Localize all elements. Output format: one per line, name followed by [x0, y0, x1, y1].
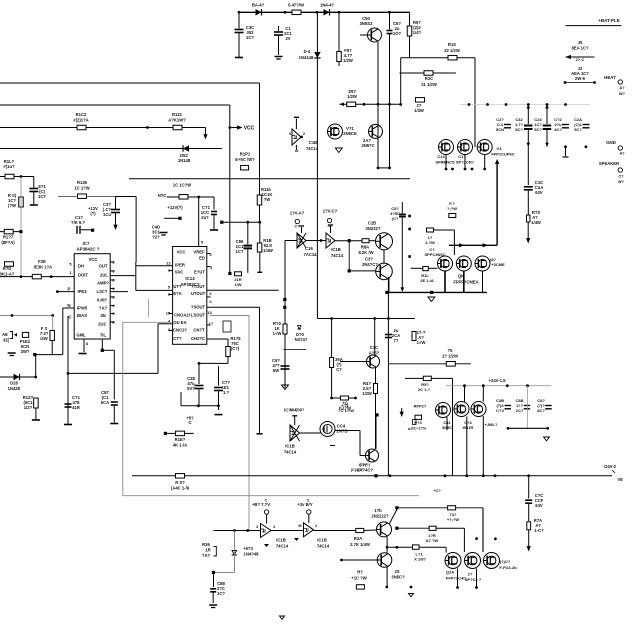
svg-text:0.47?/W: 0.47?/W	[288, 3, 304, 8]
svg-text:7AC14: 7AC14	[303, 252, 317, 257]
svg-text:VREF: VREF	[193, 250, 205, 255]
svg-text:?A?: ?A?	[202, 553, 211, 558]
svg-text:1R: 1R	[205, 548, 210, 553]
capacitor C52A	[574, 117, 590, 132]
svg-text:R11b: R11b	[261, 187, 271, 192]
resistor R73	[447, 506, 483, 552]
wire Q1B collector	[390, 506, 399, 523]
capacitor C8C	[537, 398, 551, 413]
svg-text:1C 1C?W: 1C 1C?W	[173, 183, 191, 188]
svg-text:7?: 7?	[394, 338, 399, 343]
resistor R107	[0, 229, 23, 245]
inverter IC16 74C14	[285, 226, 317, 257]
svg-text:A?K1W?: A?K1W?	[168, 118, 186, 123]
wire Q3B base	[348, 239, 376, 272]
svg-text:2u?: 2u?	[201, 215, 209, 220]
svg-text:12: 12	[166, 261, 171, 266]
svg-text:BA-4?: BA-4?	[252, 3, 265, 8]
capacitor C41b 478	[64, 395, 81, 425]
svg-text:R S?: R S?	[175, 480, 185, 485]
svg-text:A: A	[112, 320, 115, 325]
svg-text:AMP?: AMP?	[97, 281, 109, 286]
svg-text:2C 1-?: 2C 1-?	[418, 387, 431, 392]
resistor R20 1K	[273, 321, 287, 336]
resistor R1E7 4K	[164, 431, 194, 447]
capacitor C51	[387, 12, 402, 168]
svg-text:AP3842C ?: AP3842C ?	[77, 247, 100, 252]
transistor Q30	[367, 345, 380, 368]
svg-text:N?C: N?C	[158, 193, 167, 198]
svg-text:R36: R36	[202, 542, 210, 547]
svg-text:F2E: F2E	[38, 259, 46, 264]
diode D2 1N4148 on top rail	[320, 3, 334, 16]
svg-text:#(1u?: #(1u?	[3, 164, 15, 169]
svg-text:CT?: CT?	[173, 336, 182, 341]
capacitor C23 bulk	[534, 105, 551, 147]
svg-text:BIAS: BIAS	[77, 313, 87, 318]
wire IC14 LSOUT gray	[210, 316, 249, 531]
capacitor C88	[210, 572, 225, 603]
svg-text:1/W: 1/W	[234, 282, 241, 287]
svg-text:/4W: /4W	[40, 336, 47, 341]
resistor R1D	[0, 262, 15, 277]
svg-text:C2B: C2B	[368, 221, 376, 226]
transistor Q3B	[362, 257, 392, 280]
mosfet QR3	[471, 402, 498, 428]
resistor R1R	[426, 526, 465, 552]
svg-text:R2A: R2A	[354, 536, 362, 541]
svg-text:LSC?: LSC?	[97, 289, 108, 294]
wire Q2B emitter down	[383, 250, 385, 263]
wire gray box bottom edge	[123, 495, 419, 497]
svg-text:N4?4?: N4?4?	[295, 337, 308, 342]
resistor F on right	[412, 330, 426, 345]
svg-text:2N6CE: 2N6CE	[343, 131, 357, 136]
wire gate1 input vertical	[283, 241, 286, 389]
text IC2A label	[284, 408, 302, 413]
svg-text:C: C	[188, 420, 191, 425]
IC14 right pin numbers	[207, 252, 214, 326]
IC14 left pin numbers	[166, 261, 172, 333]
wire long vertical from D4	[316, 12, 318, 318]
svg-text:2.7K 1/4W: 2.7K 1/4W	[350, 542, 370, 547]
resistor R52	[347, 89, 357, 107]
svg-text:R1C2: R1C2	[76, 112, 87, 117]
terminal J2	[564, 66, 596, 84]
svg-text:1-/W: 1-/W	[417, 340, 426, 345]
mosfet QK1	[438, 256, 453, 271]
svg-text:+5?3: +5?3	[243, 546, 253, 551]
wire line C with resistors	[0, 126, 208, 139]
ground tiny bottom mid	[280, 616, 285, 619]
wire step IC7 to IC14 upper	[110, 262, 172, 290]
svg-text:+3CME: +3CME	[491, 262, 505, 267]
svg-text:1O?: 1O?	[393, 31, 402, 36]
wire IC14 2SOUT	[207, 307, 263, 434]
svg-text:SP?C4 ?: SP?C4 ?	[465, 577, 482, 582]
svg-text:1C?: 1C?	[236, 249, 244, 254]
wire IC14 CH2C down	[207, 339, 228, 363]
wire small seg	[284, 349, 307, 351]
resistor R8 on wire	[388, 348, 470, 366]
junction dots on top rail	[238, 11, 391, 14]
svg-text:VCC: VCC	[89, 257, 98, 262]
wire cap bank bottom rail	[564, 145, 587, 148]
mosfet Q14	[435, 140, 455, 165]
wire main bus 24V	[132, 474, 612, 477]
node AE bracket	[2, 332, 17, 343]
svg-text:+?;?W: +?;?W	[447, 517, 460, 522]
ground node C4D	[152, 225, 168, 240]
svg-text:(?)C?: (?)C?	[500, 559, 511, 564]
svg-text:1C?: 1C?	[38, 194, 46, 199]
svg-text:W?: W?	[618, 180, 625, 184]
ground right mid	[544, 437, 550, 441]
svg-text:?2?: ?2?	[152, 235, 160, 240]
wire drop to bus	[387, 319, 389, 476]
wire Q33 collector	[375, 415, 377, 449]
svg-text:OU EA: OU EA	[173, 320, 186, 325]
svg-text:(C?): (C?)	[231, 346, 240, 351]
ground under Q51	[335, 148, 342, 153]
svg-text:2N4?C?: 2N4?C?	[362, 262, 378, 267]
svg-text:C3C: C3C	[370, 345, 378, 350]
inverter IC1A 74C14	[289, 117, 319, 151]
capacitor C1C chain	[525, 476, 544, 521]
resistor P132	[20, 332, 31, 354]
svg-text:+?3: +?3	[341, 403, 349, 408]
svg-text:2W?: 2W?	[21, 349, 30, 354]
wire to C28	[198, 362, 228, 365]
svg-text:2: 2	[315, 524, 317, 528]
capacitor C71	[214, 366, 230, 415]
wire source bus heavy	[385, 291, 487, 294]
terminal SPEAKER	[599, 161, 625, 184]
terminal 12V-C	[323, 209, 338, 229]
svg-text:IC14: IC14	[185, 276, 195, 281]
wire bias bottom	[33, 308, 63, 356]
svg-text:R?D: R?D	[3, 266, 12, 271]
svg-text:63V: 63V	[535, 503, 543, 508]
wire row2 gates	[465, 386, 484, 402]
svg-text:DOIT: DOIT	[78, 273, 88, 278]
svg-text:N: N	[67, 303, 70, 308]
svg-text:VAC: VAC	[175, 270, 184, 275]
svg-text:?5: ?5	[448, 348, 454, 353]
wire Q30 base	[340, 361, 367, 363]
wire bottom gate wire	[214, 529, 261, 532]
svg-text:R?: R?	[357, 570, 363, 575]
ground cap bank	[563, 147, 569, 157]
wire Q28 base	[340, 559, 377, 562]
mosfet QK2	[456, 256, 471, 271]
capacitor C41 100 2u	[201, 197, 218, 230]
wire base row	[340, 103, 402, 107]
svg-text:C: C	[265, 499, 268, 503]
svg-text:IC7: IC7	[83, 241, 90, 246]
wire IC7 pin IPW5	[63, 307, 74, 309]
svg-text:1Cu: 1Cu	[103, 212, 111, 217]
svg-text:41R: 41R	[72, 405, 80, 410]
IC7 bottom stub and ground	[79, 339, 89, 354]
capacitor C86	[236, 222, 252, 273]
svg-text:D-4: D-4	[304, 49, 311, 54]
terminal J5	[566, 40, 595, 62]
text SPP04N60	[424, 247, 445, 257]
svg-text:?A?: ?A?	[99, 306, 108, 311]
svg-text:IPER: IPER	[175, 263, 185, 268]
svg-text:AE: AE	[2, 332, 8, 337]
svg-text:2E 1-/A: 2E 1-/A	[420, 278, 434, 283]
svg-text:IPW5: IPW5	[77, 306, 88, 311]
svg-text:5C?: 5C?	[574, 127, 582, 132]
svg-text:0K1-A?: 0K1-A?	[0, 272, 15, 277]
svg-text:+BAT-PLE: +BAT-PLE	[598, 18, 620, 23]
capacitor C61	[29, 177, 46, 206]
svg-text:(8F?A): (8F?A)	[1, 240, 15, 245]
resistor R1 0.47R on top rail	[288, 3, 304, 15]
wire stub 12V	[164, 205, 183, 220]
wire IC7 pin IPER	[56, 290, 74, 293]
wire cap bank top rail	[460, 103, 590, 106]
wire vertical to cap bank	[474, 58, 476, 147]
zener D10	[295, 326, 308, 343]
wire gate feed heavy	[449, 243, 497, 247]
svg-text:C?(?): C?(?)	[360, 463, 371, 467]
terminal 12V-A	[290, 211, 305, 229]
svg-text:FFP?3C4C: FFP?3C4C	[446, 576, 466, 581]
svg-text:?SOUT: ?SOUT	[191, 305, 206, 310]
svg-text:?W: ?W	[264, 197, 271, 202]
resistor R1S 22 1/2W	[401, 42, 475, 60]
svg-text:C3?: C3?	[365, 257, 373, 262]
resistor R7A chain	[527, 518, 544, 552]
resistor R2C 21 1/2W	[400, 71, 456, 87]
resistor RG bottom	[330, 396, 357, 411]
wire vertical from line B	[228, 105, 231, 275]
svg-text:DH: DH	[78, 264, 84, 269]
svg-text:FFPF?CMEA: FFPF?CMEA	[453, 280, 478, 285]
transistor Q50	[360, 16, 382, 42]
wire zener branch gray	[212, 531, 235, 575]
wire horizontal to BIAS net	[67, 372, 158, 375]
svg-text:R1S: R1S	[448, 42, 456, 47]
svg-text:M: M	[298, 524, 301, 528]
svg-text:1/2W: 1/2W	[362, 391, 372, 396]
svg-text:1/4?: 1/4?	[413, 30, 422, 35]
ground row0	[428, 297, 435, 302]
diode D1 on top rail	[252, 3, 265, 16]
svg-text:1?V-C?: 1?V-C?	[323, 209, 338, 214]
wire cap feed	[220, 221, 261, 224]
svg-text:?TOUT: ?TOUT	[191, 284, 205, 289]
svg-text:(?): (?)	[90, 211, 96, 216]
resistor R15 chain	[526, 210, 541, 244]
resistor R18	[257, 222, 273, 272]
transistor Q52	[361, 124, 382, 148]
resistor F floating	[447, 201, 457, 218]
svg-text:+C?: +C?	[433, 489, 441, 493]
svg-text:2C?: 2C?	[516, 408, 524, 413]
mosfet Q51	[328, 124, 357, 139]
resistor R51	[407, 12, 421, 57]
svg-text:E?UT: E?UT	[194, 270, 205, 275]
resistor R127	[23, 395, 40, 420]
resistor R33 10 1/2W	[158, 183, 214, 200]
svg-text:+24V-1.5: +24V-1.5	[489, 378, 507, 383]
resistor R4 2.5	[362, 368, 378, 449]
svg-text:P?3: P?3	[414, 420, 422, 425]
svg-text:CN?T: CN?T	[193, 328, 205, 333]
svg-text:D28: D28	[10, 381, 18, 386]
svg-text:1/3W: 1/3W	[414, 108, 424, 113]
svg-text:C?: C?	[618, 175, 624, 179]
svg-text:1?A?C?: 1?A?C?	[290, 408, 305, 412]
wire gate3 to opto	[300, 403, 355, 434]
svg-text:C: C	[307, 499, 310, 503]
mosfet Q16	[477, 140, 515, 157]
wire Q16 drain down heavy	[495, 159, 499, 245]
resistor RS on bus	[171, 474, 190, 491]
inverter IC1B gate5	[294, 499, 330, 549]
svg-text:IPE3: IPE3	[77, 289, 87, 294]
svg-text:V8: V8	[617, 477, 623, 482]
capacitor C87	[101, 339, 119, 424]
svg-text:C14: C14	[437, 154, 445, 159]
node 24V-2 label	[604, 464, 623, 482]
resistor L1 inline	[413, 545, 427, 562]
resistor R8A 8.2K	[335, 239, 376, 255]
svg-text:W?: W?	[619, 92, 626, 96]
svg-text:RFP2?: RFP2?	[414, 404, 427, 409]
svg-text:P: P	[68, 287, 71, 292]
resistor J2 2R	[414, 98, 424, 113]
transistor Q33	[357, 449, 378, 473]
capacitor C52	[554, 117, 569, 132]
resistor FS 7-3K	[40, 316, 55, 355]
svg-text:2? 1/2W: 2? 1/2W	[442, 354, 458, 359]
svg-text:74C14: 74C14	[306, 146, 319, 151]
IC7 left pin labels	[67, 262, 72, 320]
wire bottom cap rail	[181, 392, 220, 407]
wire Q1B to mosfets	[386, 537, 446, 553]
svg-text:R121: R121	[172, 112, 183, 117]
svg-text:13: 13	[207, 310, 212, 315]
svg-text:IC1B: IC1B	[331, 247, 341, 252]
resistor F3	[412, 404, 427, 431]
mosfet QK3	[475, 256, 505, 271]
resistor R116 750	[226, 336, 242, 357]
svg-text:(C)4C?: (C)4C?	[351, 468, 364, 472]
wire gray box left edge	[123, 322, 171, 495]
svg-text:32[: 32[	[3, 338, 10, 343]
svg-text:15: 15	[166, 311, 171, 316]
svg-text:1?V-A?: 1?V-A?	[290, 211, 305, 216]
svg-text:V3: V3	[497, 146, 503, 151]
svg-text:(A4C 1-/9: (A4C 1-/9	[171, 486, 190, 491]
mosfet QR1	[436, 403, 453, 431]
resistor R6A chain	[330, 319, 343, 399]
svg-text:C1B: C1B	[309, 140, 317, 145]
resistor R102	[73, 112, 88, 130]
svg-text:1?b: 1?b	[374, 508, 382, 513]
svg-text:HN1R: HN1R	[463, 425, 474, 430]
svg-text:VCC: VCC	[177, 250, 186, 255]
svg-text:SPEAKER: SPEAKER	[599, 161, 619, 166]
svg-text:CNOA2I: CNOA2I	[174, 313, 190, 318]
diode D4 1N4148	[299, 49, 321, 60]
wire gray stub mid	[148, 299, 150, 317]
mosfet Q2C	[484, 553, 518, 571]
svg-text:Q2A: Q2A	[446, 570, 454, 575]
svg-text:OUT: OUT	[99, 264, 108, 269]
svg-text:F-FU3-2b: F-FU3-2b	[499, 565, 517, 570]
svg-text:8C?: 8C?	[537, 408, 545, 413]
wire IC14 UTOUT long	[207, 289, 279, 291]
wire opto out	[335, 431, 366, 456]
resistor RS1 10K	[8, 193, 23, 208]
svg-text:+JML?: +JML?	[485, 422, 498, 427]
svg-text:2.?W: 2.?W	[425, 240, 435, 245]
svg-text:1/4W: 1/4W	[531, 220, 541, 225]
wire mosfet row0 sources heavy	[445, 271, 483, 292]
svg-text:E?A: E?A	[173, 291, 181, 296]
text small C	[351, 463, 371, 472]
svg-text:1N4?48: 1N4?48	[244, 552, 260, 557]
svg-text:1N148: 1N148	[178, 158, 191, 163]
capacitor C3B	[496, 398, 511, 413]
svg-text:A?: A?	[619, 86, 625, 90]
svg-text:1/4W: 1/4W	[263, 248, 273, 253]
svg-text:ED: ED	[199, 256, 205, 261]
svg-text:#(2)1?A: #(2)1?A	[73, 118, 88, 123]
svg-text:4N: 4N	[100, 313, 105, 318]
svg-text:(C?: (C?	[392, 216, 399, 221]
wire bus line B	[0, 104, 230, 106]
svg-text:IC1B: IC1B	[317, 538, 327, 543]
resistor R1J2	[0, 159, 34, 179]
IC U14 AP2820	[173, 247, 207, 345]
svg-text:1N4-4?: 1N4-4?	[320, 3, 334, 8]
svg-text:?/K 9.?: ?/K 9.?	[71, 220, 85, 225]
svg-text:C?: C?	[336, 367, 342, 372]
resistor R2A 2.7K	[314, 528, 377, 547]
svg-text:5C?: 5C?	[534, 127, 542, 132]
wire line D with diode D52	[0, 148, 222, 150]
svg-text:1C?: 1C?	[246, 35, 254, 40]
svg-text:+1C ?W: +1C ?W	[351, 576, 367, 581]
svg-text:74C14: 74C14	[317, 544, 330, 549]
wire Q3B emitter to net	[387, 277, 390, 320]
inverter IC1B gate3	[284, 408, 305, 455]
text QK label	[453, 274, 478, 285]
wire main top rail	[239, 11, 410, 13]
svg-text:CH2?C: CH2?C	[191, 336, 205, 341]
svg-text:UTOUT: UTOUT	[191, 291, 206, 296]
IC U7 AP3842C	[74, 241, 110, 339]
svg-text:+12V(?): +12V(?)	[167, 205, 183, 210]
svg-text:1N42E: 1N42E	[8, 386, 21, 391]
capacitor C31 10u	[88, 197, 120, 231]
transistor Q28	[377, 553, 405, 587]
wire gray to R1R	[395, 527, 429, 530]
wire gray drop	[527, 386, 529, 429]
svg-text:X 1/8?: X 1/8?	[414, 557, 426, 562]
node dots right	[408, 215, 411, 258]
wire left leg	[399, 58, 402, 106]
svg-text:5W: 5W	[273, 368, 279, 373]
svg-text:2UL: 2UL	[100, 273, 108, 278]
